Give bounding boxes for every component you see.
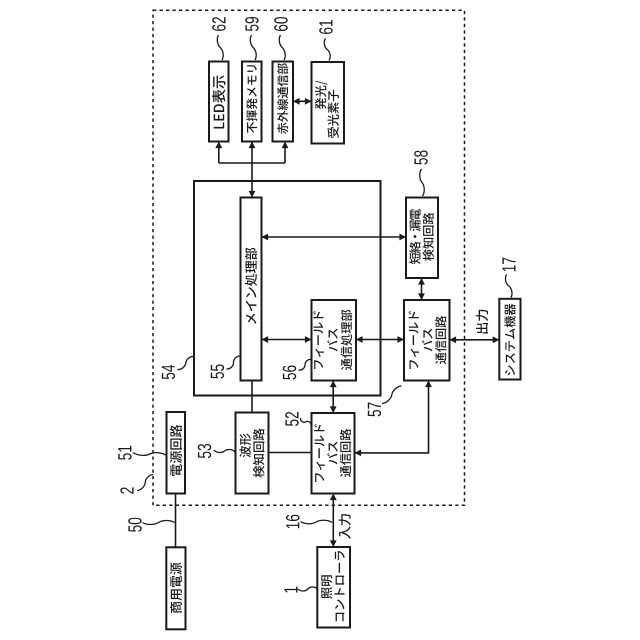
arrow 56-57 bus link — [356, 336, 404, 343]
box 61 light emitting/receiving element — [312, 62, 345, 144]
label 短絡・漏電検知回路 — [409, 209, 434, 264]
leader 53 — [214, 449, 235, 452]
label メイン処理部 — [245, 248, 257, 324]
numeral 2 — [120, 487, 133, 493]
leader 59 — [250, 35, 256, 60]
label 不揮発メモリ — [246, 65, 257, 133]
box 59 non-volatile memory — [242, 62, 262, 142]
label フィールドバス通信回路 57 — [409, 311, 447, 369]
arrow 55-58 detection link — [262, 234, 407, 241]
leader 1 — [298, 587, 318, 591]
label LED表示 — [212, 75, 225, 128]
leader 16 — [301, 520, 333, 523]
arrow 52-1 input link — [330, 494, 337, 548]
wire 55-53 plain — [251, 381, 253, 413]
numeral 54 — [162, 365, 175, 379]
leader 51 — [133, 453, 167, 456]
label システム機器 — [504, 304, 515, 376]
leader 52 — [300, 418, 311, 426]
label 発光/受光素子 — [315, 81, 339, 138]
numeral 57 — [368, 403, 381, 417]
numeral 60 — [274, 17, 288, 31]
numeral 53 — [198, 444, 212, 458]
leader 2 — [137, 475, 153, 491]
wire 51-50 plain — [175, 494, 177, 549]
leader 50 — [143, 520, 175, 524]
dashed enclosure box 2 (power supply device) — [153, 10, 465, 505]
label 商用電源 — [170, 563, 182, 614]
arrow to box 60 — [282, 142, 289, 164]
arrow 56-52 vertical link — [330, 381, 337, 414]
numeral 51 — [118, 446, 131, 460]
box 62 LED display — [209, 62, 229, 142]
arrow 57-17 output link — [450, 336, 500, 343]
label 波形検知回路 — [239, 429, 264, 478]
box 17 system equipment — [499, 299, 520, 380]
box 54 processing block — [194, 181, 381, 396]
arrow to box 62 — [215, 142, 222, 164]
label 出力 output — [476, 310, 488, 334]
label 赤外線通信部 — [277, 63, 288, 134]
numeral 59 — [245, 17, 259, 31]
numeral 61 — [319, 20, 333, 34]
box 58 short-circuit/leakage detection circuit — [406, 198, 438, 279]
box 1 lighting controller — [317, 547, 350, 628]
box 53 waveform detection circuit — [236, 413, 269, 494]
box 56 field bus communication processing unit — [312, 300, 357, 381]
label フィールドバス通信処理部 — [313, 310, 352, 370]
arrow L 52-57 link — [355, 381, 432, 457]
leader 61 — [324, 39, 330, 61]
numeral 50 — [128, 518, 142, 532]
box 52 field bus communication circuit (lower) — [312, 413, 355, 494]
box 60 infrared communication unit — [273, 62, 294, 142]
numeral 17 — [502, 258, 515, 272]
wire 53-52 plain — [269, 452, 312, 454]
leader 56 — [299, 359, 312, 370]
numeral 58 — [414, 151, 428, 165]
arrow 60-61 infrared link — [293, 98, 312, 105]
arrow to box 59 and down to main processor — [249, 142, 256, 198]
box 55 main processing unit — [241, 198, 262, 381]
box 50 commercial power source — [166, 547, 185, 629]
leader 17 — [505, 275, 512, 298]
numeral 1 — [284, 587, 297, 593]
box 51 power supply circuit — [167, 412, 186, 494]
arrow 55-56 bus link — [262, 336, 312, 343]
label 電源回路 — [170, 425, 182, 476]
label 入力 input — [339, 514, 351, 539]
label フィールドバス通信回路 52 — [314, 424, 351, 482]
leader 62 — [217, 35, 223, 60]
numeral 52 — [285, 412, 299, 426]
leader 60 — [279, 35, 285, 60]
label 照明コントローラ — [321, 551, 344, 622]
box 57 field bus communication circuit (inner) — [404, 300, 450, 381]
wire branch horizontal to top boxes — [219, 162, 285, 164]
numeral 62 — [212, 17, 226, 31]
leader 54 — [178, 356, 195, 369]
numeral 16 — [286, 515, 300, 529]
numeral 55 — [211, 365, 224, 379]
leader 55 — [227, 356, 241, 369]
arrow 58-57 vertical link — [418, 278, 425, 300]
leader 58 — [420, 169, 424, 196]
numeral 56 — [283, 366, 297, 380]
leader 57 — [382, 386, 402, 404]
